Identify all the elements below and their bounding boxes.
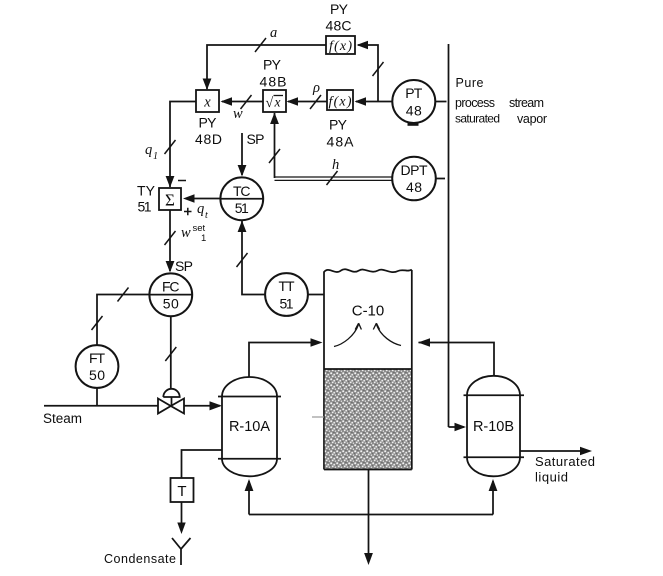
f(x) function block PY48A bbox=[327, 90, 353, 110]
wire R-10A condensate outlet to trap bbox=[182, 450, 223, 478]
svg-text:PY: PY bbox=[199, 115, 218, 131]
wire PT48 right stub bbox=[436, 101, 447, 103]
arrow into C-10 left wall bbox=[311, 338, 323, 347]
arrow into R-10B left bbox=[455, 423, 467, 432]
wire trap T to condensate bbox=[181, 502, 183, 527]
arrow condensate down bbox=[177, 523, 185, 535]
arrow into x box top bbox=[203, 79, 212, 91]
summer block TY51 bbox=[159, 188, 181, 210]
svg-text:51: 51 bbox=[235, 200, 249, 216]
wire h signal riser to PY48B bottom bbox=[274, 113, 276, 178]
slash on FT-FC vertical bbox=[92, 316, 103, 330]
svg-text:x: x bbox=[274, 95, 281, 110]
slash on h line bbox=[327, 171, 338, 185]
svg-text:48A: 48A bbox=[327, 134, 355, 150]
arrow into sigma box top bbox=[166, 176, 175, 188]
svg-text:PY: PY bbox=[263, 57, 282, 73]
wire DPT48 right stub bbox=[436, 178, 446, 180]
svg-text:PY: PY bbox=[330, 1, 349, 17]
condensate drain symbol bbox=[172, 538, 191, 565]
wire R-10B top to column C-10 bbox=[419, 343, 495, 376]
wire R-10A top to column C-10 bbox=[249, 343, 320, 378]
arrow into f(x) 48C right bbox=[357, 41, 369, 50]
wire valve to R-10A bbox=[184, 405, 220, 407]
wire FT50 bottom tap bbox=[96, 388, 98, 406]
wire FT50 to FC50 bbox=[97, 295, 150, 346]
slash on a wire bbox=[255, 38, 266, 52]
process stream vertical line bbox=[448, 44, 450, 427]
slash on wset wire bbox=[165, 231, 176, 245]
svg-text:1: 1 bbox=[201, 233, 206, 244]
wire wset signal TY51 to FC50 bbox=[169, 210, 171, 271]
slash on h riser bbox=[269, 149, 280, 163]
wire PT48 to PY48A bbox=[356, 101, 394, 103]
wire FC50 to valve bbox=[170, 317, 172, 390]
svg-text:w: w bbox=[181, 225, 191, 241]
column C-10 liquid holdup (stippled) bbox=[325, 370, 411, 470]
control valve actuator dome bbox=[163, 389, 179, 397]
arrow into sqrt box right bbox=[287, 97, 299, 106]
slash on q1 wire bbox=[165, 140, 176, 154]
svg-text:C-10: C-10 bbox=[352, 303, 385, 320]
wire saturated liquid outlet bbox=[520, 450, 589, 452]
arrow into R-10A left bbox=[210, 401, 223, 410]
riser into R-10A bottom bbox=[248, 481, 250, 515]
arrow into TC top bbox=[238, 165, 247, 177]
vessel R-10B bbox=[467, 376, 520, 476]
steam trap block T bbox=[171, 478, 194, 502]
arrow into R-10A bottom bbox=[245, 479, 254, 491]
wire SP into TC51 top bbox=[241, 133, 243, 175]
h measurement double line to DPT48 bbox=[275, 176, 393, 178]
svg-text:saturated: saturated bbox=[455, 112, 500, 126]
svg-text:51: 51 bbox=[280, 295, 294, 311]
control valve body bbox=[158, 399, 184, 414]
svg-text:a: a bbox=[270, 25, 277, 41]
wire TT51 right stub to column bbox=[308, 294, 325, 296]
minus sign at sigma bbox=[178, 180, 186, 182]
svg-text:TY: TY bbox=[137, 183, 156, 199]
instrument TT51 bbox=[265, 273, 308, 316]
wire rho signal PY48A to PY48B bbox=[288, 101, 327, 103]
instrument DPT48 bbox=[392, 157, 436, 201]
svg-text:ρ: ρ bbox=[312, 80, 320, 96]
svg-text:h: h bbox=[332, 157, 339, 173]
svg-text:T: T bbox=[177, 483, 186, 500]
wire q1 signal PY48D to TY51 bbox=[170, 102, 196, 188]
svg-text:R-10A: R-10A bbox=[229, 419, 270, 435]
riser into R-10B bottom bbox=[492, 481, 494, 515]
svg-text:vapor: vapor bbox=[517, 112, 547, 126]
svg-text:48B: 48B bbox=[260, 74, 287, 90]
slash on rho wire bbox=[310, 95, 321, 109]
svg-text:Condensate: Condensate bbox=[104, 552, 176, 566]
svg-text:f(x): f(x) bbox=[329, 95, 352, 110]
slash on FT-FC horizontal bbox=[118, 288, 129, 302]
svg-text:48D: 48D bbox=[195, 131, 222, 147]
svg-text:FT: FT bbox=[89, 350, 105, 366]
wire process line into R-10B bbox=[449, 426, 465, 428]
column C-10 wavy top bbox=[324, 269, 412, 272]
instrument PT48 bbox=[392, 80, 435, 123]
mark under PT48 bbox=[408, 123, 419, 126]
svg-text:stream: stream bbox=[509, 96, 544, 110]
svg-text:R-10B: R-10B bbox=[473, 419, 514, 435]
slash on TT-TC wire bbox=[237, 253, 248, 267]
svg-text:50: 50 bbox=[163, 296, 179, 312]
wire from process line tap to PY48C input bbox=[358, 45, 378, 102]
svg-text:SP: SP bbox=[175, 258, 193, 274]
arrow into R-10B bottom bbox=[489, 479, 498, 491]
arrow into TC bottom bbox=[238, 221, 247, 233]
square root block PY48B bbox=[263, 90, 286, 112]
instrument TC51 bbox=[220, 177, 263, 220]
slash on 48C tap wire bbox=[373, 62, 384, 76]
svg-text:PT: PT bbox=[405, 85, 422, 101]
wire a-signal from PY48C output to PY48D multiplier input bbox=[207, 45, 326, 89]
wire TT51 to TC51 bbox=[242, 221, 266, 295]
svg-text:48: 48 bbox=[406, 179, 422, 195]
slash on FC-valve wire bbox=[165, 347, 176, 361]
arrow into sqrt box bottom bbox=[270, 113, 279, 125]
instrument FC50 bbox=[149, 273, 192, 316]
svg-text:TT: TT bbox=[279, 278, 295, 294]
wire w signal PY48B to PY48D bbox=[222, 101, 263, 103]
svg-text:t: t bbox=[205, 210, 208, 221]
svg-text:FC: FC bbox=[162, 278, 180, 294]
svg-text:Saturated: Saturated bbox=[535, 454, 595, 469]
svg-text:q: q bbox=[145, 142, 152, 158]
svg-text:liquid: liquid bbox=[535, 470, 568, 485]
arrow bottoms product down bbox=[364, 553, 373, 565]
arrow into sigma box right bbox=[183, 194, 195, 203]
small tick on column left wall bbox=[312, 416, 324, 418]
svg-text:f(x): f(x) bbox=[329, 39, 352, 54]
svg-text:q: q bbox=[197, 201, 204, 217]
svg-text:PY: PY bbox=[329, 117, 348, 133]
arrow into C-10 right side bbox=[418, 338, 430, 347]
svg-text:SP: SP bbox=[247, 131, 265, 147]
svg-text:TC: TC bbox=[233, 183, 251, 199]
column C-10 shell bbox=[324, 270, 412, 470]
svg-text:Σ: Σ bbox=[165, 191, 175, 210]
wire C-10 bottoms product bbox=[368, 470, 370, 558]
wire qt signal TC51 to TY51 bbox=[186, 198, 221, 200]
vapor swirl arrow right bbox=[377, 325, 402, 346]
arrow into f(x) 48A right bbox=[355, 97, 367, 106]
arrow into FC top bbox=[166, 261, 175, 273]
svg-text:process: process bbox=[455, 96, 495, 110]
vessel R-10A bbox=[222, 377, 277, 476]
svg-text:w: w bbox=[233, 106, 243, 122]
arrow saturated liquid bbox=[580, 447, 592, 456]
f(x) function block PY48C bbox=[326, 36, 355, 54]
slash on w wire bbox=[241, 95, 252, 109]
steam supply line bbox=[44, 405, 158, 407]
svg-text:1: 1 bbox=[153, 151, 158, 162]
svg-text:Steam: Steam bbox=[43, 411, 82, 426]
multiplier block PY48D bbox=[196, 90, 219, 112]
arrow into x box right bbox=[221, 97, 233, 106]
svg-text:√: √ bbox=[266, 96, 274, 111]
svg-text:Pure: Pure bbox=[456, 76, 484, 90]
svg-text:51: 51 bbox=[138, 199, 152, 215]
plus sign at sigma bbox=[184, 208, 192, 216]
svg-text:DPT: DPT bbox=[401, 162, 428, 178]
svg-text:x: x bbox=[203, 95, 211, 111]
svg-text:48C: 48C bbox=[326, 18, 352, 34]
svg-text:48: 48 bbox=[406, 102, 422, 118]
svg-text:50: 50 bbox=[89, 367, 105, 383]
instrument FT50 bbox=[76, 345, 119, 388]
vapor swirl arrow left bbox=[334, 325, 359, 347]
bottom circulation pipe bbox=[249, 514, 493, 516]
